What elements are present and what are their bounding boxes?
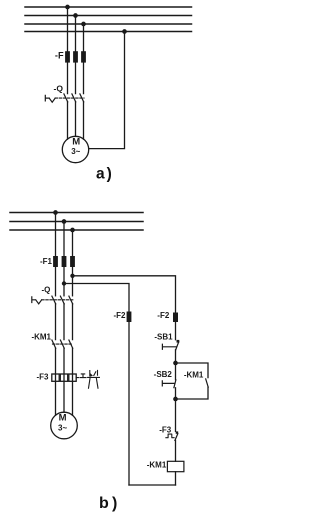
wire phase3 lower segment (a)	[83, 102, 85, 139]
junction dot L2 tap (a)	[73, 13, 78, 18]
wire phase1 lower segment (a)	[67, 102, 69, 139]
wire phase1 middle segment (b)	[55, 304, 57, 340]
overload -F3 trip linkage dashes	[76, 377, 87, 379]
wire phase2 upper segment (a)	[75, 16, 77, 94]
svg-text:-F: -F	[55, 50, 64, 60]
overload -F3 heater box pole1	[52, 374, 59, 381]
switch -Q linkage (a)	[55, 97, 84, 99]
wire phase3 middle segment (b)	[72, 304, 74, 340]
junction dot L3 tap (a)	[81, 22, 86, 27]
svg-text:-SB1: -SB1	[154, 333, 173, 342]
svg-text:-F2: -F2	[157, 311, 170, 320]
overload -F3 trip mechanism symbol	[88, 370, 100, 388]
wire phase3 lower segment (b)	[72, 348, 74, 415]
wire motor frame to N (a)	[89, 32, 125, 149]
switch -Q blade pole3 (b)	[69, 296, 73, 304]
contactor -KM1 blade pole3	[69, 340, 73, 348]
svg-text:-F1: -F1	[40, 257, 53, 266]
bus line L3 (a)	[25, 23, 192, 25]
junction dot L3 tap (b)	[70, 228, 75, 233]
svg-text:-Q: -Q	[54, 83, 64, 93]
contactor -KM1 blade pole2	[60, 340, 64, 348]
wire phase1 upper segment (a)	[67, 7, 69, 94]
switch -Q manual actuator (b)	[32, 297, 42, 304]
wire phase2 lower segment (a)	[75, 102, 77, 136]
junction dot L2 tap (b)	[62, 219, 67, 224]
wire phase2 lower segment (b)	[63, 348, 65, 412]
junction dot L1 tap (b)	[53, 210, 58, 215]
wire phase1 upper segment (b)	[55, 213, 57, 296]
junction dot N tap (a)	[122, 29, 127, 34]
wire control branch return	[64, 284, 129, 312]
motor M 3~ (a)	[62, 136, 88, 162]
svg-text:-Q: -Q	[42, 285, 51, 294]
fuse -F2 right	[173, 313, 178, 323]
contactor -KM1 blade pole1	[52, 340, 56, 348]
switch -Q blade pole2 (a)	[72, 94, 76, 102]
wire phase1 lower segment (b)	[55, 348, 57, 415]
svg-text:-SB2: -SB2	[154, 370, 173, 379]
switch -Q linkage (b)	[42, 299, 73, 301]
switch -Q manual actuator (a)	[45, 95, 55, 102]
contact -KM1 aux blade	[206, 379, 209, 387]
wire phase2 upper segment (b)	[63, 222, 65, 296]
svg-text:-KM1: -KM1	[184, 370, 204, 379]
fuse -F1 pole2	[62, 256, 67, 267]
contactor -KM1 linkage	[53, 343, 73, 345]
bus line L2 (b)	[10, 221, 143, 223]
svg-text:b): b)	[99, 495, 121, 512]
fuse -F pole2	[73, 51, 78, 62]
wire phase3 upper segment (b)	[72, 230, 74, 296]
svg-text:a): a)	[96, 165, 114, 182]
pushbutton -SB1 actuator	[162, 344, 176, 349]
fuse -F1 pole1	[53, 256, 58, 267]
junction dot L1 tap (a)	[65, 5, 70, 10]
svg-text:-F3: -F3	[37, 372, 50, 381]
fuse -F1 pole3	[70, 256, 75, 267]
svg-text:3~: 3~	[58, 423, 67, 432]
wire fuse to SB1	[175, 322, 177, 340]
motor M 3~ (b)	[51, 412, 78, 439]
fuse -F pole3	[81, 51, 86, 62]
bus line N (a)	[25, 31, 192, 33]
wire control branch upper	[73, 276, 176, 313]
bus line L1 (a)	[25, 6, 192, 8]
switch -Q blade pole1 (b)	[52, 296, 56, 304]
svg-text:-KM1: -KM1	[31, 332, 51, 341]
wire bottom return	[129, 484, 176, 486]
bus line L1 (b)	[10, 212, 143, 214]
pushbutton -SB2 blade	[174, 380, 176, 388]
overload -F3 heater box pole3	[69, 374, 76, 381]
svg-text:-F3: -F3	[159, 426, 172, 435]
junction dot node A	[173, 361, 178, 366]
wire left branch down	[128, 322, 130, 485]
junction dot control tap phase2	[62, 281, 66, 285]
fuse -F pole1	[65, 51, 70, 62]
switch -Q blade pole3 (a)	[80, 94, 84, 102]
junction dot control tap phase3	[70, 274, 74, 278]
bus line L3 (b)	[10, 229, 143, 231]
svg-text:M: M	[59, 413, 67, 424]
wire SB2 to node B	[175, 388, 177, 399]
switch -Q blade pole2 (b)	[60, 296, 64, 304]
wire node A to KM1 aux branch	[176, 363, 209, 378]
svg-text:-KM1: -KM1	[147, 460, 167, 469]
bus line L2 (a)	[25, 15, 192, 17]
fuse -F2 left	[127, 312, 132, 323]
svg-text:M: M	[72, 136, 80, 147]
pushbutton -SB2 actuator	[162, 381, 174, 386]
overload contact -F3 thermal element	[166, 434, 174, 438]
junction dot node B	[173, 397, 178, 402]
wire phase2 middle segment (b)	[63, 304, 65, 340]
coil -KM1	[167, 461, 184, 471]
overload -F3 trip tee	[81, 374, 84, 378]
wire SB1 to node A	[175, 350, 177, 363]
switch -Q blade pole1 (a)	[64, 94, 68, 102]
wire node B to F3 contact	[175, 399, 177, 431]
overload -F3 heater box pole2	[60, 374, 67, 381]
svg-text:3~: 3~	[71, 147, 80, 156]
overload contact -F3 seat	[176, 431, 179, 433]
wire phase3 upper segment (a)	[83, 24, 85, 94]
overload contact -F3 blade	[175, 434, 178, 441]
wire coil to bottom	[175, 472, 177, 485]
pushbutton -SB1 seat	[177, 340, 180, 343]
wire KM1 aux to node B	[176, 387, 209, 399]
svg-text:-F2: -F2	[114, 311, 127, 320]
pushbutton -SB1 blade	[176, 342, 179, 350]
wire node A to SB2	[175, 363, 177, 380]
wire F3 to coil	[175, 440, 177, 461]
